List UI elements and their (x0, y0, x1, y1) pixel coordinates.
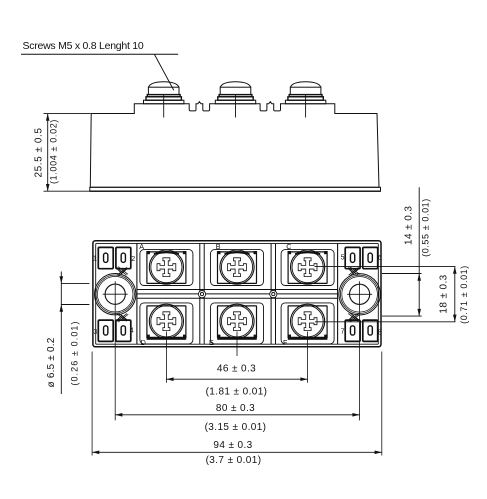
terminal D: phillips cross (157, 312, 176, 331)
svg-text:94 ± 0.3: 94 ± 0.3 (213, 440, 252, 451)
svg-text:6: 6 (378, 255, 382, 262)
terminal B: screw well (217, 251, 257, 283)
control pin 2 slot (121, 253, 125, 262)
mounting hole left centerline (114, 281, 116, 420)
plan view: horizontal mid ribs (137, 289, 338, 291)
terminal F: screw well (288, 306, 327, 338)
dimension 14 +/- 0.3 lines (382, 187, 422, 316)
rivet between B/C rows (270, 291, 277, 298)
terminal C: phillips cross (298, 258, 317, 277)
pin block hatch X (117, 313, 129, 322)
svg-text:F: F (283, 338, 288, 347)
side view: baseplate (90, 187, 381, 191)
svg-text:(1.004 ± 0.02): (1.004 ± 0.02) (49, 119, 59, 184)
control pin 3 slot (104, 326, 108, 335)
control pin 6 slot (368, 253, 372, 262)
svg-text:(3.15 ± 0.01): (3.15 ± 0.01) (205, 422, 267, 433)
dimension 80 +/- 0.3 line (115, 413, 359, 417)
svg-text:80 ± 0.3: 80 ± 0.3 (216, 403, 255, 414)
ext line terminal E center (236, 332, 238, 357)
terminal C: screw circles (291, 250, 325, 284)
svg-text:3: 3 (93, 329, 97, 336)
dimension 94 +/- 0.3 line (92, 451, 382, 455)
svg-text:5: 5 (341, 254, 345, 261)
terminal A: compartment frame (140, 250, 193, 286)
terminal C: compartment frame (281, 250, 334, 286)
terminal B: clamp arc (225, 252, 250, 254)
pin block notch (117, 269, 126, 274)
terminal F: screw circles (291, 304, 325, 338)
svg-text:Screws M5 x 0.8 Lenght 10: Screws M5 x 0.8 Lenght 10 (23, 40, 144, 52)
dimension 18 +/- 0.3 lines (315, 267, 457, 322)
pin block hatch X (117, 267, 129, 276)
mounting hole boss right (339, 274, 380, 315)
terminal D: screw well (147, 306, 186, 338)
pin block notch (117, 315, 126, 320)
mounting hole right centerline (359, 281, 361, 420)
pin block hatch X (348, 313, 360, 322)
control pins 1/2: block (98, 247, 131, 268)
control pin 7 slot (350, 326, 354, 335)
terminal A: phillips cross (157, 258, 176, 277)
svg-text:E: E (209, 338, 214, 347)
side view: terminal screw 1 (M5) (144, 82, 184, 118)
terminal C: clamp arc (295, 252, 320, 254)
svg-text:D: D (141, 338, 146, 347)
terminal A: clamp arc (154, 252, 179, 254)
terminal F: compartment frame (281, 303, 334, 344)
dimension 46 +/- 0.3 line (166, 377, 307, 381)
ext line body right edge (381, 352, 383, 456)
svg-text:A: A (139, 242, 144, 251)
pin block notch (349, 315, 358, 320)
control pins 3/4: block (98, 320, 131, 341)
ext line body left edge (91, 352, 93, 456)
terminal B: screw circles (220, 250, 254, 284)
control pins 7/8: block (345, 320, 377, 341)
terminal E: phillips cross (228, 312, 247, 331)
terminal B: compartment frame (211, 250, 264, 286)
control pin 4 slot (121, 326, 125, 335)
ext line terminal F center (307, 332, 309, 383)
pin block hatch X (348, 267, 360, 276)
plan view: left wall between hole column and cells (136, 243, 138, 344)
plan view: rib between cells B/E and C/F (270, 243, 272, 344)
terminal E: clamp bar (217, 337, 257, 340)
terminal D: screw circles (149, 304, 183, 338)
terminal E: screw well (218, 306, 257, 338)
plan view: module outline (93, 241, 381, 347)
svg-text:ø 6.5 ± 0.2: ø 6.5 ± 0.2 (46, 337, 57, 387)
terminal F: clamp bar (288, 337, 328, 340)
leader line to screw 1 (154, 54, 173, 90)
terminal D: clamp bar (147, 337, 187, 340)
control pin 8 slot (368, 326, 372, 335)
ext line terminal D center (165, 332, 167, 383)
svg-text:1: 1 (93, 255, 97, 262)
mounting hole boss left (95, 274, 136, 315)
plan view: right wall between cells and hole column (337, 243, 339, 344)
dimension dia 6.5 +/- 0.2 lines (60, 272, 90, 395)
svg-text:(1.81 ± 0.01): (1.81 ± 0.01) (206, 386, 268, 397)
terminal D: compartment frame (140, 303, 193, 344)
terminal E: screw circles (220, 304, 254, 338)
control pins 5/6: block (345, 247, 377, 268)
terminal A: screw well (147, 251, 187, 283)
terminal C: screw well (288, 251, 328, 283)
svg-text:(0.71 ± 0.01): (0.71 ± 0.01) (459, 265, 469, 324)
svg-text:25.5 ± 0.5: 25.5 ± 0.5 (34, 128, 45, 178)
svg-text:(3.7 ± 0.01): (3.7 ± 0.01) (206, 455, 262, 466)
svg-text:(0.55 ± 0.01): (0.55 ± 0.01) (420, 198, 430, 257)
side view: module body outline (90, 102, 379, 188)
svg-text:14 ± 0.3: 14 ± 0.3 (404, 206, 415, 245)
svg-text:8: 8 (378, 329, 382, 336)
svg-text:(0.26 ± 0.01): (0.26 ± 0.01) (70, 320, 80, 385)
svg-text:46 ± 0.3: 46 ± 0.3 (217, 363, 256, 374)
svg-text:7: 7 (341, 329, 345, 336)
control pin 1 slot (104, 253, 108, 262)
dimension 25.5 +/- 0.5 extension+dim lines (44, 114, 91, 192)
svg-text:2: 2 (131, 256, 135, 263)
plan view: rib between cells A/D and B/E (199, 243, 201, 344)
side view: terminal screw 2 (M5) (215, 82, 255, 118)
leader underline (21, 53, 178, 55)
terminal E: compartment frame (211, 303, 264, 344)
control pin 5 slot (350, 253, 354, 262)
plan view: inner border (96, 243, 379, 344)
rivet between A/B rows (198, 291, 205, 298)
svg-text:4: 4 (130, 328, 134, 335)
side view: terminal screw 3 (M5) (285, 82, 325, 118)
terminal F: phillips cross (298, 312, 317, 331)
svg-text:C: C (286, 242, 291, 251)
terminal A: screw circles (149, 250, 183, 284)
terminal B: phillips cross (228, 258, 247, 277)
pin block notch (349, 269, 358, 274)
svg-text:B: B (216, 242, 221, 251)
svg-text:18 ± 0.3: 18 ± 0.3 (438, 274, 449, 313)
